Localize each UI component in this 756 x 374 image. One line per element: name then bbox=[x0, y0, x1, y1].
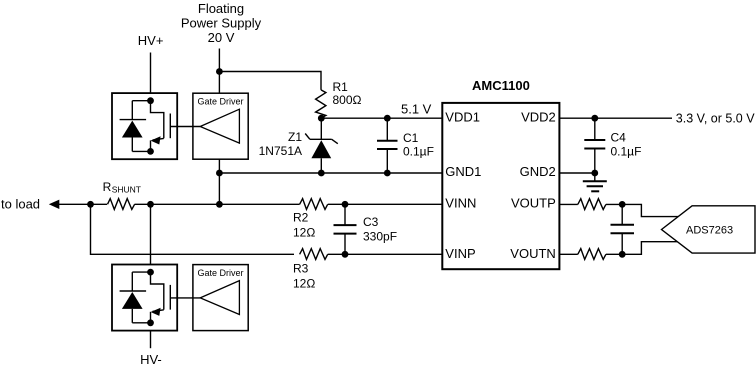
svg-text:Gate Driver: Gate Driver bbox=[197, 96, 243, 106]
capacitor C1 bbox=[377, 118, 398, 173]
capacitor C4 bbox=[584, 118, 605, 173]
gate driver U3 (bottom) bbox=[193, 265, 248, 331]
wire HV- lead bbox=[150, 331, 152, 349]
svg-text:R3: R3 bbox=[293, 261, 309, 275]
svg-text:VOUTN: VOUTN bbox=[510, 246, 556, 261]
diode D2 (freewheel) bbox=[132, 271, 150, 273]
wire GND2 bbox=[560, 172, 595, 174]
wire 20V to R1 bbox=[219, 72, 321, 90]
svg-text:VOUTP: VOUTP bbox=[511, 196, 556, 211]
node GND1/driver bbox=[216, 170, 223, 177]
capacitor Cout bbox=[611, 204, 635, 254]
wire shunt rail to VINN bbox=[135, 203, 443, 205]
svg-text:R2: R2 bbox=[293, 210, 309, 224]
wire VINP branch bbox=[91, 204, 295, 254]
svg-text:R1: R1 bbox=[333, 80, 349, 94]
svg-text:Z1: Z1 bbox=[288, 130, 302, 144]
node Q1 emitter bbox=[147, 148, 154, 155]
wire VOUTN bbox=[560, 253, 578, 255]
svg-text:12Ω: 12Ω bbox=[293, 276, 315, 290]
node VINP tap bbox=[87, 201, 94, 208]
resistor R1 bbox=[316, 90, 326, 118]
wire U2 to GND1 rail bbox=[218, 159, 220, 204]
node R2 out bbox=[342, 201, 349, 208]
svg-text:C1: C1 bbox=[403, 131, 419, 145]
node HV leg bbox=[147, 201, 154, 208]
resistor R2 bbox=[300, 199, 328, 210]
node VOUTN bbox=[619, 251, 626, 258]
svg-text:1N751A: 1N751A bbox=[259, 144, 302, 158]
wire R3 to VINP bbox=[328, 253, 443, 255]
transistor Q1 (top IGBT module) bbox=[112, 93, 177, 159]
wire gate Q1 bbox=[170, 126, 200, 128]
svg-text:GND2: GND2 bbox=[520, 164, 556, 179]
svg-text:HV-: HV- bbox=[140, 352, 162, 367]
svg-text:to load: to load bbox=[1, 197, 40, 212]
ground bbox=[583, 173, 607, 191]
svg-text:SHUNT: SHUNT bbox=[112, 185, 141, 195]
IGBT Q2 symbol bbox=[151, 272, 164, 310]
svg-text:VINN: VINN bbox=[445, 196, 476, 211]
svg-text:330pF: 330pF bbox=[363, 230, 397, 244]
zener Z1 bbox=[305, 118, 338, 173]
svg-text:5.1 V: 5.1 V bbox=[401, 102, 432, 117]
svg-text:Floating: Floating bbox=[198, 1, 244, 16]
wire Rp to node bbox=[606, 203, 622, 205]
wire Rn to node bbox=[606, 253, 622, 255]
svg-text:HV+: HV+ bbox=[138, 33, 164, 48]
svg-text:R: R bbox=[103, 180, 112, 194]
wire VOUTP step to ADC bbox=[622, 204, 680, 216]
wire VOUTN step to ADC bbox=[622, 242, 680, 255]
svg-text:C3: C3 bbox=[363, 215, 379, 229]
svg-text:ADS7263: ADS7263 bbox=[686, 224, 733, 236]
resistor Rn (VOUTN) bbox=[578, 249, 606, 260]
ADS7263 block bbox=[662, 206, 756, 253]
floating power supply label bbox=[181, 1, 262, 45]
resistor R3 bbox=[300, 249, 328, 260]
wire 5.1V rail bbox=[321, 117, 442, 119]
wire 20V supply vertical bbox=[218, 49, 220, 94]
node C1 bottom bbox=[384, 170, 391, 177]
svg-text:3.3 V, or 5.0 V: 3.3 V, or 5.0 V bbox=[676, 111, 755, 125]
node C1 top bbox=[384, 115, 391, 122]
wire HV mid leg bbox=[150, 204, 152, 264]
op-amp U1 AMC1100 bbox=[442, 103, 559, 269]
svg-text:Power Supply: Power Supply bbox=[181, 16, 262, 31]
svg-text:C4: C4 bbox=[611, 131, 627, 145]
resistor Rp (VOUTP) bbox=[578, 199, 606, 210]
wire VOUTP bbox=[560, 203, 578, 205]
node VDD2/C4 bbox=[591, 115, 598, 122]
svg-text:Gate Driver: Gate Driver bbox=[197, 268, 243, 278]
node GND1 leg bbox=[216, 201, 223, 208]
svg-text:VDD2: VDD2 bbox=[521, 109, 556, 124]
wire GND1 rail bbox=[219, 172, 442, 174]
svg-text:800Ω: 800Ω bbox=[333, 93, 362, 107]
svg-text:0.1µF: 0.1µF bbox=[403, 145, 434, 159]
node Q1 collector bbox=[147, 97, 154, 104]
node Z1 gnd bbox=[318, 170, 325, 177]
svg-text:VDD1: VDD1 bbox=[445, 109, 480, 124]
node VOUTP bbox=[619, 201, 626, 208]
svg-text:AMC1100: AMC1100 bbox=[472, 78, 530, 93]
svg-text:GND1: GND1 bbox=[445, 164, 481, 179]
svg-text:20 V: 20 V bbox=[208, 30, 235, 45]
node GND2 bbox=[591, 170, 598, 177]
diode D1 (freewheel) bbox=[132, 100, 150, 102]
wire shunt rail with arrow bbox=[49, 200, 60, 209]
transistor Q2 (bottom IGBT module) bbox=[112, 265, 177, 331]
wire gate Q2 bbox=[170, 297, 200, 299]
capacitor C3 bbox=[334, 204, 357, 254]
wire HV+ lead bbox=[150, 53, 152, 94]
resistor RSHUNT bbox=[108, 199, 135, 210]
node 20V junction bbox=[216, 68, 223, 75]
svg-text:VINP: VINP bbox=[445, 246, 475, 261]
node 5.1V bbox=[318, 115, 325, 122]
svg-text:12Ω: 12Ω bbox=[293, 225, 315, 239]
svg-text:0.1µF: 0.1µF bbox=[611, 145, 642, 159]
gate driver U2 (top) bbox=[193, 93, 248, 159]
wire VDD2 rail bbox=[560, 117, 672, 119]
IGBT Q1 symbol bbox=[151, 101, 164, 139]
node C3 bottom bbox=[342, 251, 349, 258]
